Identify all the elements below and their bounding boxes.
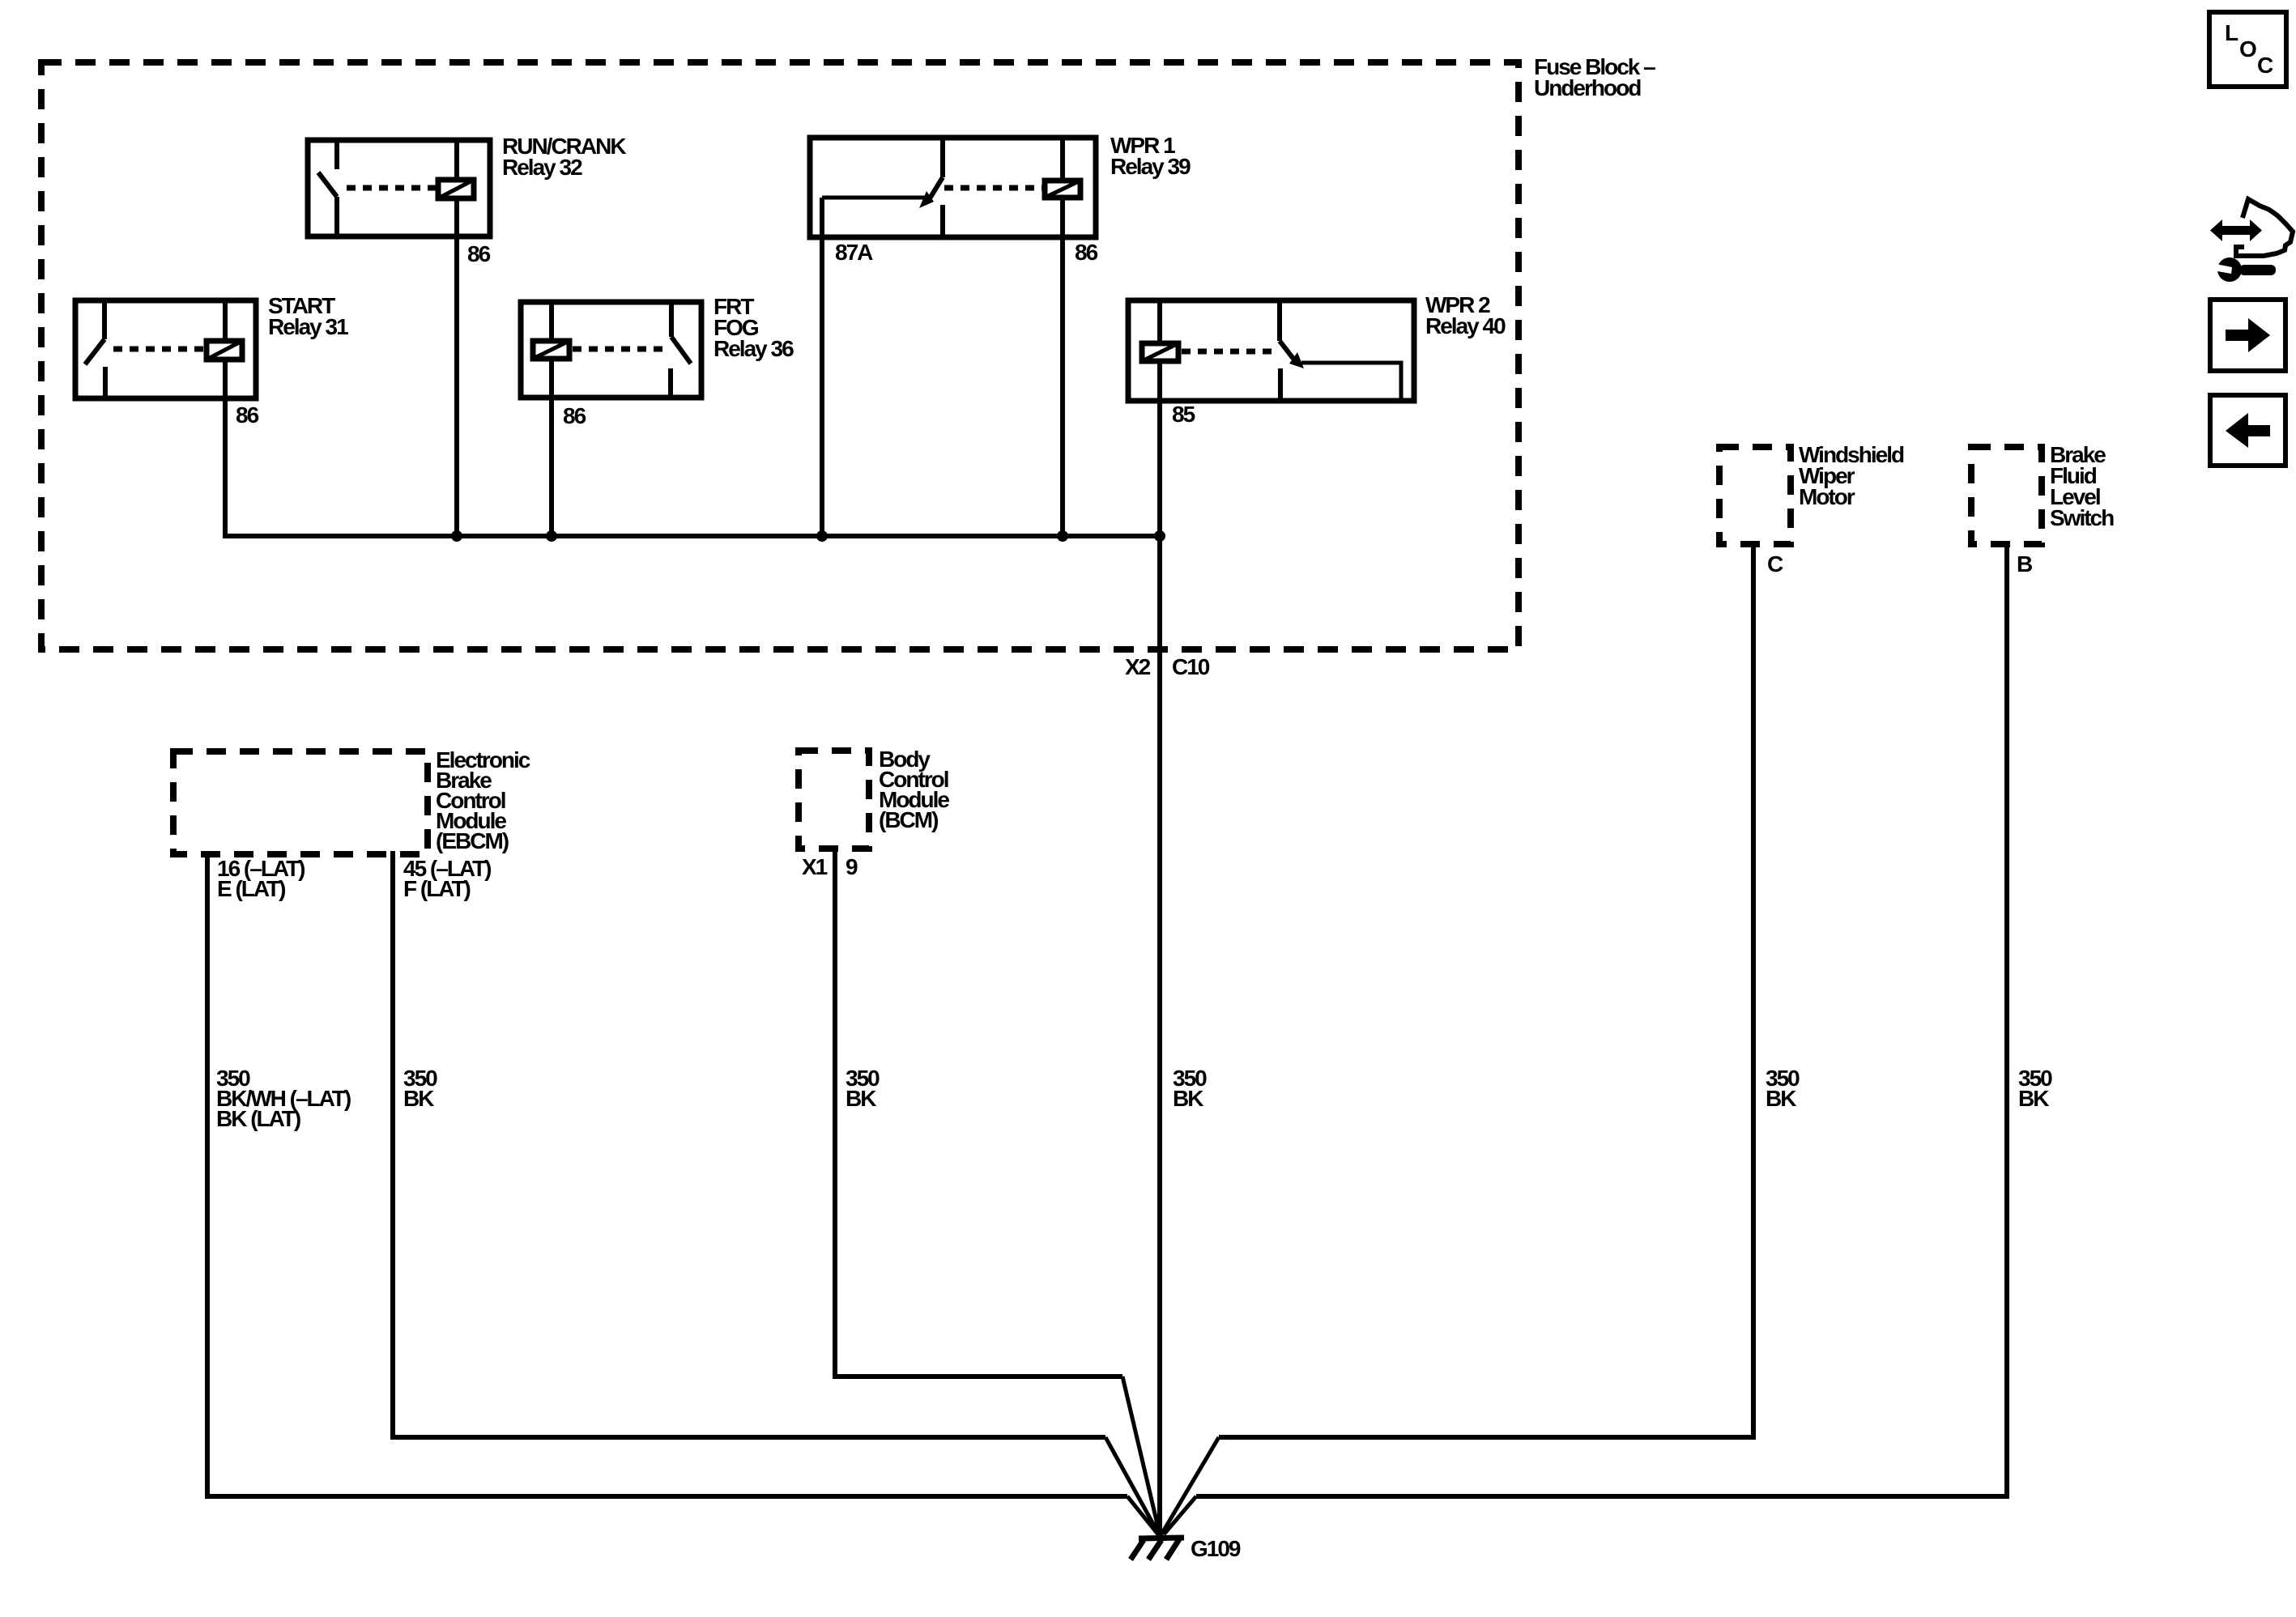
- svg-text:86: 86: [1075, 240, 1098, 265]
- relay K36 coil: [533, 341, 569, 359]
- relay K39 coil link dashed: [944, 185, 1042, 191]
- svg-text:BK: BK: [1766, 1086, 1796, 1111]
- fuse block label: [1534, 54, 1655, 100]
- wire EBCM pin45 diagonal: [1105, 1437, 1159, 1534]
- svg-text:9: 9: [846, 854, 858, 879]
- relay K39 coil: [1045, 181, 1080, 198]
- relay K36 coil leads: [549, 302, 554, 341]
- svg-text:Relay 40: Relay 40: [1425, 313, 1506, 338]
- main ground wire X2-C10 to G109: [1157, 536, 1162, 1535]
- brake fluid level switch dashed box: [1971, 447, 2042, 544]
- svg-text:BK: BK: [846, 1086, 876, 1111]
- svg-text:Relay 31: Relay 31: [268, 314, 348, 339]
- relay K40 coil: [1142, 343, 1178, 361]
- relay K39 87A contact line: [822, 196, 931, 200]
- svg-text:X2: X2: [1125, 654, 1151, 679]
- svg-text:86: 86: [563, 403, 586, 428]
- relay K39 switch lower contact: [940, 205, 945, 237]
- wire wiper motor to ground: [1219, 541, 1753, 1437]
- fuse block underhood dashed border: [41, 62, 1519, 649]
- relay K31 switch blade: [85, 339, 104, 364]
- wire label 350 BK main: [1173, 1066, 1207, 1111]
- svg-text:G109: G109: [1191, 1536, 1241, 1561]
- svg-text:B: B: [2017, 551, 2032, 577]
- svg-text:C: C: [2257, 53, 2273, 78]
- relay K40 switch lower contact: [1278, 368, 1283, 401]
- relay K40 coil link dashed: [1182, 349, 1272, 355]
- relay K32 coil link dashed: [347, 185, 436, 191]
- EBCM pin 16/E label: [217, 856, 305, 901]
- wire pin87A K39 to bus: [820, 237, 824, 536]
- junction dot at bus corner: [1154, 530, 1165, 542]
- EBCM dashed box: [173, 751, 428, 854]
- windshield wiper motor label: [1799, 442, 1904, 509]
- relay K32 switch pole: [334, 140, 339, 169]
- svg-text:BK: BK: [1173, 1086, 1203, 1111]
- relay K39 87A lead: [820, 198, 824, 237]
- relay K40 coil leads: [1157, 300, 1162, 343]
- svg-text:BK (LAT): BK (LAT): [216, 1106, 300, 1131]
- svg-text:Switch: Switch: [2050, 505, 2114, 530]
- relay K32 label: [502, 134, 626, 180]
- wire label 350 BK BCM: [846, 1066, 880, 1111]
- relay K36 coil link dashed: [573, 347, 662, 352]
- svg-text:Underhood: Underhood: [1534, 75, 1641, 100]
- junction dot at 87A: [816, 530, 828, 542]
- svg-text:L: L: [2225, 20, 2238, 45]
- BCM dashed box: [799, 751, 869, 849]
- svg-text:E (LAT): E (LAT): [217, 876, 285, 901]
- wire wiper diagonal: [1161, 1437, 1219, 1534]
- relay K32 coil: [438, 180, 474, 198]
- relay K31 switch lower contact: [103, 367, 108, 398]
- relay K39 switch blade: [930, 177, 943, 198]
- relay K31 coil: [207, 341, 242, 360]
- relay K40 blade arrowhead: [1289, 352, 1304, 368]
- relay K39 blade arrowhead: [919, 191, 934, 208]
- wire EBCM pin16 diagonal: [1127, 1496, 1158, 1534]
- relay K36 switch blade: [671, 337, 691, 364]
- svg-text:C10: C10: [1172, 654, 1210, 679]
- EBCM pin 45/F label: [403, 856, 491, 901]
- relay K40 87 contact line: [1301, 363, 1401, 402]
- relay K39 label: [1110, 133, 1191, 179]
- BCM label: [879, 747, 949, 832]
- relay K39 coil leads: [1060, 138, 1065, 181]
- svg-text:86: 86: [467, 241, 491, 266]
- junction dot at 86 WPR1: [1057, 530, 1068, 542]
- wire EBCM pin16 to ground: [207, 851, 1127, 1496]
- wire label 350 BK EBCM45: [403, 1066, 437, 1111]
- relay K32 RUN/CRANK box: [308, 140, 490, 236]
- svg-text:87A: 87A: [835, 240, 873, 265]
- relay K40 switch blade: [1280, 341, 1293, 359]
- brake fluid level switch label: [2050, 442, 2114, 530]
- relay K31 label: [268, 293, 348, 339]
- relay K36 switch lower contact: [668, 368, 673, 398]
- svg-text:Relay 32: Relay 32: [502, 155, 582, 180]
- relay K32 coil leads: [454, 140, 459, 180]
- wire pin86 K31 to bus: [225, 398, 1160, 536]
- relay K32 switch lower contact: [334, 197, 339, 236]
- svg-text:F (LAT): F (LAT): [403, 876, 471, 901]
- svg-text:85: 85: [1172, 402, 1195, 427]
- wire pin86 K36 to bus: [549, 398, 554, 536]
- wire pin86 K32 to bus: [454, 236, 459, 536]
- wire BCM pin9 to ground: [835, 845, 1122, 1377]
- relay K31 coil leads: [223, 300, 228, 341]
- LOC icon box: [2209, 12, 2286, 87]
- wire EBCM pin45 to ground: [393, 851, 1105, 1437]
- wire label 350 BK/WH EBCM16: [216, 1066, 351, 1131]
- wire pin86 K39 to bus: [1060, 237, 1065, 536]
- junction dot at FF: [546, 530, 557, 542]
- wire label 350 BK wiper: [1766, 1066, 1800, 1111]
- relay K36 label: [714, 294, 794, 361]
- relay K31 switch pole: [102, 300, 107, 339]
- relay K39 WPR1 box: [810, 138, 1096, 237]
- service icon double arrow: [2210, 219, 2262, 241]
- wire label 350 BK brake: [2018, 1066, 2052, 1111]
- wire pin85 K40 to bus: [1157, 401, 1162, 536]
- svg-text:C: C: [1767, 551, 1783, 577]
- wire brake fluid switch to ground: [1196, 541, 2007, 1496]
- svg-text:Relay 39: Relay 39: [1110, 154, 1191, 179]
- relay K39 switch pole: [940, 138, 945, 177]
- service icon wrench: [2216, 257, 2276, 282]
- svg-text:BK: BK: [403, 1086, 434, 1111]
- back arrow icon box: [2210, 395, 2285, 466]
- ground G109 symbol: [1131, 1538, 1184, 1560]
- EBCM label: [436, 747, 530, 853]
- wire BCM diagonal: [1122, 1377, 1160, 1534]
- forward arrow icon box: [2210, 300, 2285, 371]
- svg-text:Relay 36: Relay 36: [714, 336, 794, 361]
- relay K31 coil link dashed: [113, 347, 204, 352]
- relay K36 FRT FOG box: [521, 302, 701, 398]
- svg-text:Motor: Motor: [1799, 484, 1855, 509]
- relay K31 START box: [75, 300, 256, 398]
- svg-text:X1: X1: [802, 854, 828, 879]
- relay K32 switch blade: [318, 172, 337, 197]
- relay K40 switch pole: [1277, 300, 1282, 341]
- relay K36 switch pole: [669, 302, 674, 337]
- svg-text:(EBCM): (EBCM): [436, 828, 509, 853]
- relay K40 WPR2 box: [1128, 300, 1414, 401]
- BCM pin X1/9 label: [802, 854, 858, 879]
- junction dot at RC: [451, 530, 462, 542]
- svg-text:BK: BK: [2018, 1086, 2049, 1111]
- svg-text:86: 86: [236, 402, 259, 428]
- wire brake diagonal: [1164, 1496, 1196, 1534]
- svg-text:O: O: [2239, 36, 2256, 62]
- svg-text:(BCM): (BCM): [879, 807, 938, 832]
- relay K40 label: [1425, 292, 1506, 338]
- windshield wiper motor dashed box: [1719, 447, 1791, 544]
- service icon car outline: [2236, 199, 2293, 256]
